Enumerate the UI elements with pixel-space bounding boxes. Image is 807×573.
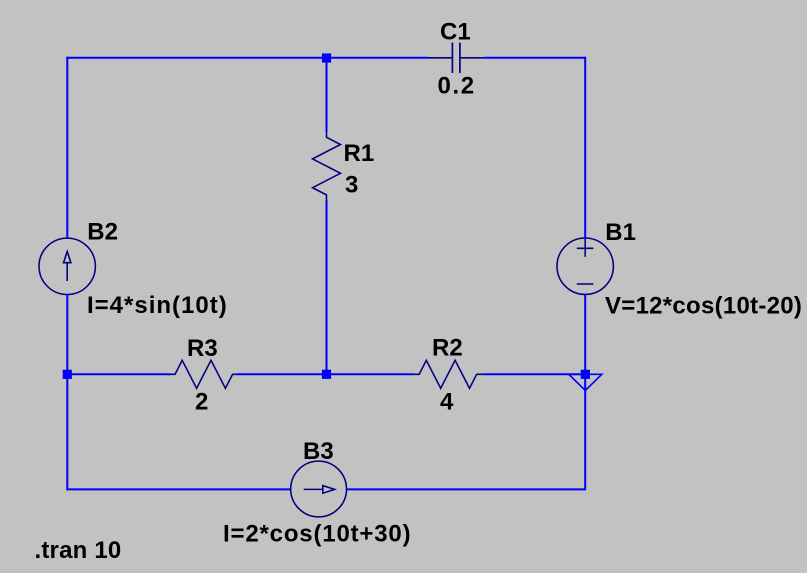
wire top: left corner to capacitor — [66, 57, 428, 59]
svg-text:.tran 10: .tran 10 — [35, 537, 122, 564]
svg-text:2: 2 — [195, 389, 208, 416]
node junction top middle — [322, 53, 331, 62]
wire bottom left — [66, 488, 290, 490]
svg-text:4: 4 — [440, 389, 454, 416]
wire middle horizontal center — [237, 373, 413, 375]
current source B3 — [291, 461, 347, 517]
wire left rail upper — [66, 57, 68, 239]
wire top: capacitor to right corner — [484, 57, 586, 59]
wire bottom right — [347, 488, 585, 490]
wire middle rail lower — [326, 200, 328, 374]
node junction left middle — [63, 370, 72, 379]
svg-text:R1: R1 — [344, 140, 375, 167]
svg-text:0.2: 0.2 — [438, 73, 476, 100]
svg-text:B3: B3 — [303, 438, 334, 465]
wire right rail lower — [584, 294, 586, 490]
ground — [569, 374, 602, 390]
resistor R2 — [413, 360, 483, 388]
wire right rail upper — [584, 57, 586, 239]
resistor R1 — [313, 131, 341, 201]
svg-text:3: 3 — [345, 172, 358, 199]
svg-text:C1: C1 — [440, 19, 471, 46]
wire left rail lower — [66, 294, 68, 490]
svg-text:R2: R2 — [432, 335, 463, 362]
current source B2 — [39, 238, 95, 294]
wire middle horizontal right — [483, 373, 586, 375]
wire middle rail upper — [326, 58, 328, 132]
capacitor C1 — [428, 43, 484, 74]
wire middle horizontal left — [66, 373, 170, 375]
svg-text:B1: B1 — [605, 219, 636, 246]
svg-text:I=2*cos(10t+30): I=2*cos(10t+30) — [223, 521, 411, 548]
svg-text:B2: B2 — [87, 219, 118, 246]
node junction right middle — [581, 370, 590, 379]
node junction center middle — [322, 370, 331, 379]
svg-text:R3: R3 — [187, 335, 218, 362]
svg-text:I=4*sin(10t): I=4*sin(10t) — [87, 292, 228, 319]
resistor R3 — [169, 360, 237, 388]
voltage source B1 — [557, 238, 613, 294]
svg-text:V=12*cos(10t-20): V=12*cos(10t-20) — [605, 293, 802, 320]
